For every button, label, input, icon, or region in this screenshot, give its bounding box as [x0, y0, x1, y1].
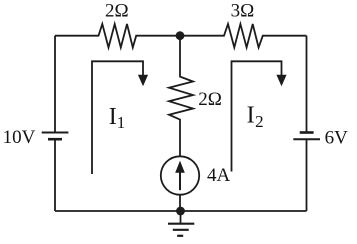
svg-text:2Ω: 2Ω: [105, 1, 129, 22]
svg-text:I1: I1: [109, 104, 126, 132]
svg-text:I2: I2: [247, 103, 264, 131]
svg-text:4A: 4A: [207, 165, 231, 186]
svg-text:6V: 6V: [325, 128, 349, 149]
svg-text:2Ω: 2Ω: [198, 89, 222, 110]
svg-text:10V: 10V: [3, 127, 36, 148]
svg-text:3Ω: 3Ω: [231, 1, 255, 22]
